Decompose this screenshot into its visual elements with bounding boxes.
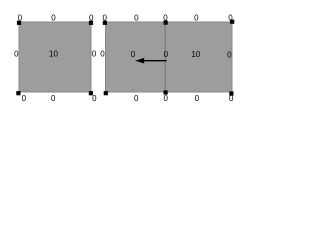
svg-text:0: 0 — [18, 13, 23, 22]
label value 0 at E2 right mid-edge — [227, 50, 232, 59]
node N1 (E1 top-left corner) — [17, 21, 21, 25]
label value 0 at node N9 — [163, 94, 168, 103]
label value 0 at node N7 — [228, 13, 233, 22]
arrow displacement vector pointing left — [135, 58, 166, 64]
node N10 (E2 bottom-right corner) — [229, 91, 233, 95]
label value 0 at arrow tail node — [164, 50, 169, 59]
element E2 (right patch, two cells) — [106, 22, 233, 92]
node N7 (E2 top-right corner) — [230, 20, 234, 24]
label value 0 at E2 left-cell top mid-edge — [134, 13, 139, 22]
svg-text:0: 0 — [134, 94, 139, 103]
svg-text:0: 0 — [227, 50, 232, 59]
label value 10 at E2 right-cell centre — [191, 50, 200, 59]
svg-text:0: 0 — [163, 94, 168, 103]
svg-text:0: 0 — [102, 13, 107, 22]
node N2 (E1 top-right corner) — [89, 21, 93, 25]
svg-text:0: 0 — [194, 13, 199, 22]
svg-text:0: 0 — [228, 13, 233, 22]
label value 0 at node N1 — [18, 13, 23, 22]
svg-text:0: 0 — [100, 50, 105, 59]
label value 0 at E2 left mid-edge — [100, 50, 105, 59]
label value 10 at E1 centre — [49, 50, 58, 59]
label value 0 at E2 left-cell bottom mid-edge — [134, 94, 139, 103]
svg-text:0: 0 — [195, 94, 200, 103]
label value 0 at E1 right mid-edge — [92, 50, 97, 59]
wire internal edge between E2 cells — [164, 22, 166, 92]
svg-text:0: 0 — [51, 94, 56, 103]
label value 0 at node N2 — [89, 13, 94, 22]
svg-text:0: 0 — [131, 50, 136, 59]
label value 0 at arrow head — [131, 50, 136, 59]
label value 0 at E1 bottom mid-edge — [51, 94, 56, 103]
label value 0 at node N4 — [92, 94, 97, 103]
svg-text:0: 0 — [92, 94, 97, 103]
svg-text:0: 0 — [92, 50, 97, 59]
node N9 (E2 bottom mid, hanging node) — [164, 90, 168, 94]
svg-text:10: 10 — [191, 50, 200, 59]
svg-text:0: 0 — [134, 13, 139, 22]
node N3 (E1 bottom-left corner) — [16, 91, 20, 95]
label value 0 at E2 right-cell bottom mid-edge — [195, 94, 200, 103]
node N6 (E2 top mid, hanging node) — [164, 21, 168, 25]
node N5 (E2 top-left corner) — [103, 21, 107, 25]
label value 0 at node N10 — [229, 94, 234, 103]
svg-text:0: 0 — [164, 50, 169, 59]
node N4 (E1 bottom-right corner) — [89, 91, 93, 95]
label value 0 at E1 left mid-edge — [14, 50, 19, 59]
svg-text:10: 10 — [49, 50, 58, 59]
svg-text:0: 0 — [163, 13, 168, 22]
svg-text:0: 0 — [22, 94, 27, 103]
label value 0 at E1 top mid-edge — [51, 13, 56, 22]
svg-text:0: 0 — [89, 13, 94, 22]
svg-text:0: 0 — [14, 50, 19, 59]
svg-text:0: 0 — [229, 94, 234, 103]
element E1 (left square patch) — [19, 22, 91, 92]
label value 0 at node N6 — [163, 13, 168, 22]
node N8 (E2 bottom-left corner) — [104, 91, 108, 95]
label value 0 at E2 right-cell top mid-edge — [194, 13, 199, 22]
label value 0 at node N3 — [22, 94, 27, 103]
svg-text:0: 0 — [51, 13, 56, 22]
label value 0 at node N5 — [102, 13, 107, 22]
